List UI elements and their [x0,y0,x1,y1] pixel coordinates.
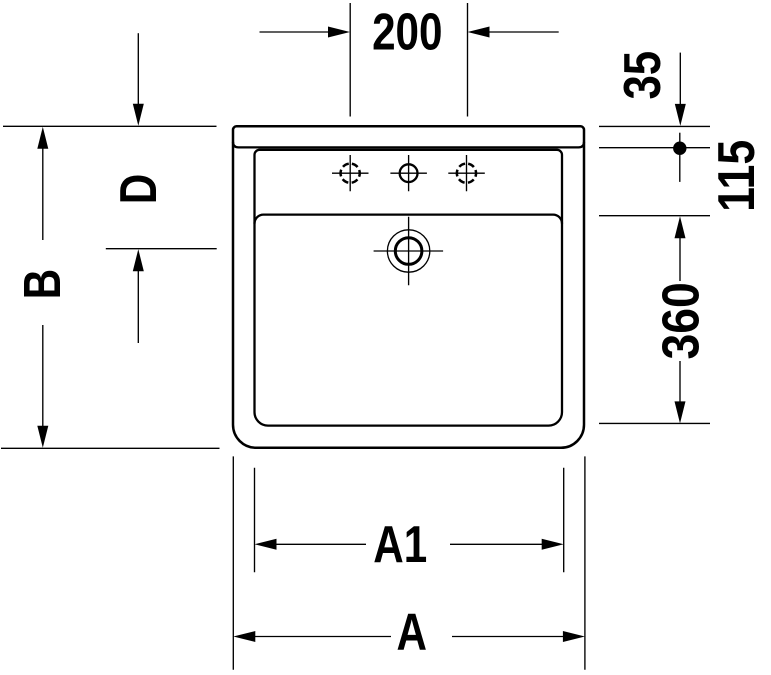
svg-text:35: 35 [615,51,672,100]
svg-text:A: A [396,602,426,660]
svg-text:360: 360 [653,282,710,359]
svg-text:A1: A1 [373,515,427,573]
svg-text:115: 115 [708,140,766,212]
svg-text:B: B [13,269,71,299]
svg-text:D: D [109,174,167,204]
svg-text:200: 200 [372,3,442,61]
